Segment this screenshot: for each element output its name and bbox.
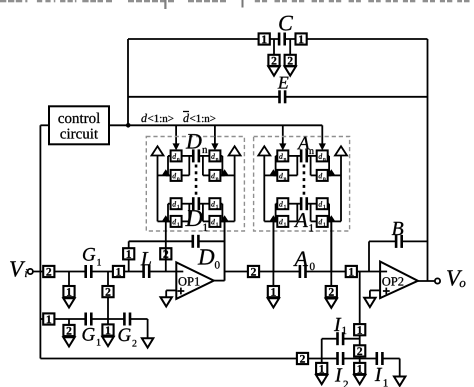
wire: A-array left bottom drop xyxy=(272,221,274,271)
wire: OP1 output vertical / D-array right drop xyxy=(224,221,226,280)
ground (bottom left leg) xyxy=(316,375,327,384)
capacitor A0 xyxy=(299,265,307,278)
ground (OP2 + input) xyxy=(364,298,375,307)
op-amp OP2 xyxy=(380,262,418,299)
wire: D-array right bottom drop xyxy=(224,221,226,280)
label I1 (upper) xyxy=(334,318,346,334)
capacitor I2 xyxy=(336,352,344,365)
switch phase-1 (main series) xyxy=(113,266,124,277)
switch Dn row2-left xyxy=(171,170,182,181)
wire: left rail down from control circuit xyxy=(39,125,41,358)
ground (A0 node shunt) xyxy=(326,299,337,308)
wire: A-array row3/row4 right links xyxy=(308,204,331,222)
wire: D-array left rail xyxy=(158,155,171,221)
switch A1 row4-left xyxy=(277,216,288,227)
wire: B feedback line xyxy=(369,240,428,242)
capacitor I1 (upper) xyxy=(336,332,344,345)
wire: D-array left bottom drop xyxy=(165,221,167,241)
wire: A-array row1/row2 left links xyxy=(273,156,300,176)
capacitor G1 xyxy=(84,265,92,278)
wire: lower G row right end to ground xyxy=(147,319,149,339)
label G2 xyxy=(119,328,137,346)
wire: E branch line xyxy=(128,96,428,98)
junction arrow D left row4 xyxy=(162,215,170,221)
switch phase-2 (input series) xyxy=(43,266,54,277)
switch phase-1 (input shunt) xyxy=(63,286,74,297)
node: bus junction dot xyxy=(126,123,131,128)
ground (C branch right) xyxy=(285,66,296,75)
switch phase-2 (lower G shunt) xyxy=(63,325,74,336)
label E xyxy=(278,77,289,89)
switch A1 row3-right xyxy=(317,198,328,209)
junction arrow A right row2 xyxy=(327,169,335,175)
label dbar<1:n> xyxy=(183,112,215,123)
label C xyxy=(279,16,293,31)
switch phase-1 (below bottom line left) xyxy=(316,363,327,374)
wire: D-array row1/row2 right links xyxy=(200,156,225,176)
switch phase-1 (C branch right) xyxy=(296,33,307,44)
switch phase-2 (bottom series) xyxy=(297,353,308,364)
wire: D-array drop to main line xyxy=(165,241,167,271)
wire: OP2 input node to I branch xyxy=(359,272,361,364)
wire: A-array row1/row2 right links xyxy=(308,156,331,176)
wire: left vertical (C/E to bus node) xyxy=(127,39,129,125)
wire: D-array right rail xyxy=(220,155,234,221)
switch phase-2 (OP1 output series) xyxy=(248,266,259,277)
switch phase-1 (A node shunt) xyxy=(268,286,279,297)
wire: A-array right drop to main line xyxy=(330,221,332,286)
capacitor An xyxy=(300,149,308,162)
switch D1 row4-right xyxy=(209,216,220,227)
wire: lower G row shunt at x69 xyxy=(68,319,70,325)
switch phase-1 (I branch upper) xyxy=(354,324,365,335)
switch phase-2 (C branch right shunt) xyxy=(285,55,296,66)
label G1 (lower) xyxy=(83,328,101,346)
switch phase-1 (D0 left leg) xyxy=(123,248,134,259)
switch phase-2 (G node shunt) xyxy=(102,286,113,297)
wire: input node shunt xyxy=(68,272,70,287)
output terminal Vo xyxy=(435,278,440,283)
wire: OP1 output stub xyxy=(214,280,225,282)
wire: B feedback vertical xyxy=(368,241,370,271)
wire: I1 upper branch xyxy=(322,339,360,363)
wire: C-right switch to phase-2 shunt xyxy=(289,39,291,56)
junction arrow A left row4 xyxy=(269,215,277,221)
ground (lower G mid shunt) xyxy=(102,337,113,346)
label Vi xyxy=(10,261,27,277)
capacitor I1 (right) xyxy=(376,352,384,365)
arrow into A-array right switch xyxy=(319,143,326,150)
dashed box: D capacitor array xyxy=(146,137,244,232)
wire: node between G1 and L to lower row xyxy=(107,272,109,320)
wire: control circuit left stub xyxy=(40,124,49,126)
switch D1 row4-left xyxy=(171,216,182,227)
wire: OP1 + input to ground xyxy=(166,290,176,297)
ellipsis dots D array xyxy=(195,165,198,195)
wire: d bus line xyxy=(128,124,322,126)
wire: OP2 output line xyxy=(418,280,435,282)
junction arrow D right row2 xyxy=(220,169,228,175)
wire: lower G row xyxy=(40,318,147,320)
junction arrow D left row2 xyxy=(162,169,170,175)
junction arrow A left row2 xyxy=(269,169,277,175)
wire: C-left switch to phase-2 shunt xyxy=(273,39,275,56)
arrow into D-array left switch xyxy=(173,143,180,150)
wire: bus drop to A-array right column xyxy=(321,125,323,144)
ellipsis dots A array xyxy=(303,165,306,195)
ground (C branch left) xyxy=(268,66,279,75)
wire: D-array row1/row2 left links xyxy=(166,156,192,176)
capacitor D0 xyxy=(192,235,200,248)
A-array left rail up-arrow xyxy=(258,146,270,155)
op-amp OP1 xyxy=(176,262,214,299)
switch phase-1 (OP2 input series) xyxy=(346,266,357,277)
wire: bus drop to A-array left column xyxy=(282,125,284,144)
switch D1 row3-left xyxy=(171,198,182,209)
label Dn (array) xyxy=(186,134,208,153)
ground (A node shunt) xyxy=(268,298,279,307)
control circuit block xyxy=(49,106,109,144)
D-array left rail up-arrow xyxy=(152,146,164,155)
junction arrow A right row4 xyxy=(327,215,335,221)
wire: lower G mid shunt xyxy=(107,319,109,325)
switch phase-2 (A0 node shunt) xyxy=(326,286,337,297)
label Vo xyxy=(447,270,465,287)
switch phase-2 (D-array to OP1 input) xyxy=(160,248,171,259)
wire: C branch top line xyxy=(128,38,428,40)
wire: A-array right rail xyxy=(328,155,341,221)
A-array right rail up-arrow xyxy=(335,146,347,155)
wire: A-array left rail xyxy=(264,155,277,221)
ground (input shunt) xyxy=(63,298,74,307)
switch D1 row3-right xyxy=(209,198,220,209)
label d<1:n> xyxy=(141,114,173,123)
wire: D-array row3/row4 right links xyxy=(200,204,225,222)
D-array right rail up-arrow xyxy=(229,146,241,155)
label I1 (right) xyxy=(375,368,388,387)
label An (array) xyxy=(297,137,314,154)
switch phase-1 (C branch left) xyxy=(259,33,270,44)
wire: OP2 + input to ground xyxy=(370,290,380,298)
wire: bottom line right end down xyxy=(399,359,401,377)
input terminal Vi xyxy=(28,269,33,274)
ground (bottom right leg) xyxy=(354,375,365,384)
switch phase-1 (lower G series) xyxy=(43,313,54,324)
arrow into A-array left switch xyxy=(279,143,286,150)
switch A1 row3-left xyxy=(277,198,288,209)
switch Dn top-left xyxy=(171,150,182,161)
label G1 (upper) xyxy=(83,248,101,266)
switch Dn row2-right xyxy=(209,170,220,181)
capacitor A1 xyxy=(300,197,308,210)
switch phase-2 (I branch mid) xyxy=(354,345,365,356)
wire: vertical with phase-1 switch to main node xyxy=(128,241,130,271)
label D0 xyxy=(198,249,220,268)
switch phase-2 (C branch left shunt) xyxy=(268,55,279,66)
ground (lower G right end) xyxy=(142,338,153,347)
wire: bottom line xyxy=(40,358,399,360)
switch An row2-right xyxy=(317,170,328,181)
wire: bus drop to D-array right column xyxy=(214,125,216,144)
label A0 xyxy=(293,252,314,271)
capacitor C xyxy=(278,33,286,46)
switch Dn top-right xyxy=(209,150,220,161)
wire: Vi input line xyxy=(33,271,183,273)
wire: A-array row3/row4 left links xyxy=(273,204,300,222)
capacitor G1 (lower) xyxy=(84,313,92,326)
dashed box: A capacitor array xyxy=(254,137,350,232)
switch phase-1 (lower G mid shunt) xyxy=(102,324,113,335)
switch An top-right xyxy=(317,150,328,161)
wire: D0 line xyxy=(129,240,225,242)
wire: bus drop to D-array left column xyxy=(175,125,177,144)
wire: control circuit output to bus node xyxy=(109,124,128,126)
capacitor E xyxy=(278,90,286,103)
capacitor L xyxy=(142,265,150,278)
label B xyxy=(392,222,404,235)
label D1 (array) xyxy=(185,210,207,231)
wire: OP1 output line xyxy=(225,271,388,273)
switch An top-left xyxy=(277,150,288,161)
ground (lower G shunt) xyxy=(63,337,74,346)
wire: A-array right bottom drop xyxy=(330,221,332,271)
capacitor G2 xyxy=(123,313,131,326)
arrow into D-array right switch xyxy=(211,143,218,150)
wire: right vertical (C/E/B to OP2 output) xyxy=(427,39,429,281)
capacitor Dn xyxy=(192,149,200,162)
capacitor D1 xyxy=(192,197,200,210)
switch An row2-left xyxy=(277,170,288,181)
wire: A-array left drop to main line xyxy=(272,221,274,286)
switch A1 row4-right xyxy=(317,216,328,227)
ground (bottom right end) xyxy=(394,377,405,386)
label L xyxy=(141,252,151,265)
junction arrow D right row4 xyxy=(220,215,228,221)
label A1 (array) xyxy=(294,213,313,231)
wire: D-array row3/row4 left links xyxy=(166,204,192,222)
label I2 xyxy=(335,368,348,387)
cropped caption text fragments xyxy=(0,0,470,9)
capacitor B xyxy=(395,235,403,248)
switch phase-1 (below bottom line right) xyxy=(354,363,365,374)
ground (OP1 + input) xyxy=(161,297,172,306)
